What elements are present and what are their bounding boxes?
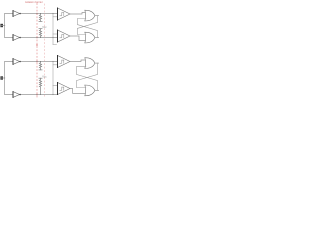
gate G3	[85, 58, 95, 69]
wire U5 out	[70, 13, 85, 15]
U4 left edge	[12, 92, 14, 98]
U4 output node dot	[19, 94, 21, 96]
schmitt trigger U5	[58, 8, 71, 20]
wire crossover vertical 2	[52, 62, 54, 95]
wire U6 out	[70, 36, 85, 41]
wire U7 out	[70, 60, 85, 62]
wire stub T5 lower input	[53, 16, 58, 18]
feedback wire G1 to G2 input	[77, 16, 97, 35]
junction dot crossover 1 bottom	[52, 37, 53, 38]
wire stub T7 lower input	[53, 64, 58, 66]
junction dot	[4, 25, 5, 26]
wire stub bottom 1	[53, 44, 57, 46]
wire J1 stub	[0, 25, 5, 27]
gate G2	[85, 32, 95, 43]
wire G2 out	[95, 37, 99, 39]
input connector J1	[0, 24, 3, 27]
isolation barrier dashed line 1	[36, 4, 38, 98]
junction dot R2	[40, 37, 41, 38]
wire U8 out	[70, 89, 85, 94]
U1 left edge	[12, 11, 14, 17]
U5 hysteresis mark	[60, 13, 64, 16]
feedback wire G3 to G4 input	[76, 63, 97, 87]
gate G1	[85, 10, 95, 21]
junction dot R4	[40, 94, 41, 95]
wire B1	[20, 37, 58, 39]
buffer U1	[13, 11, 20, 17]
isolation barrier dashed line 2	[44, 4, 46, 97]
wire G1 out	[95, 15, 99, 17]
schmitt trigger U6	[58, 30, 71, 42]
resistor R4	[39, 78, 41, 94]
svg-text:isolation barrier: isolation barrier	[25, 0, 43, 4]
supply bar R1	[39, 20, 42, 22]
junction dot crossover 2 top	[52, 61, 53, 62]
junction dot R1	[40, 13, 41, 14]
buffer U3	[13, 59, 20, 65]
junction dot crossover 2 bottom	[52, 94, 53, 95]
U7 hysteresis mark	[60, 60, 64, 63]
schmitt trigger U7	[58, 56, 71, 68]
barrier crossing dot node A2	[36, 61, 38, 63]
wire B2	[20, 94, 58, 96]
junction dot crossover 1 top	[52, 13, 53, 14]
wire A1	[20, 13, 58, 15]
wire A2	[20, 61, 58, 63]
input connector J2	[0, 76, 3, 79]
feedback wire G4 to G3 input	[76, 67, 97, 91]
barrier crossing dot node B1	[36, 37, 38, 39]
svg-text:Vcc: Vcc	[42, 25, 47, 29]
wire stub T6 upper input	[53, 33, 58, 35]
resistor R3	[39, 62, 41, 70]
barrier crossing dot node A1	[36, 13, 38, 15]
wire G3 out	[95, 62, 99, 64]
U3 left edge	[12, 59, 14, 65]
U7 left edge	[57, 56, 59, 68]
svg-text:Vcc: Vcc	[42, 74, 47, 78]
U3 output node dot	[19, 61, 21, 63]
U5 left edge	[57, 8, 59, 20]
gate G4	[85, 85, 95, 96]
buffer U2	[13, 35, 20, 41]
junction dot R3	[40, 61, 41, 62]
junction dot	[4, 77, 5, 78]
wire crossover vertical 1	[52, 14, 54, 45]
barrier crossing dot mid1	[36, 44, 38, 46]
U6 hysteresis mark	[60, 35, 64, 38]
wire input bus 1	[5, 14, 14, 38]
U6 left edge	[57, 30, 59, 42]
resistor R2	[39, 29, 41, 38]
buffer U4	[13, 92, 20, 98]
resistor R1	[39, 14, 41, 22]
supply bar R4	[39, 77, 42, 79]
wire J2 stub	[0, 77, 5, 79]
U2 left edge	[12, 35, 14, 41]
U1 output node dot	[19, 13, 21, 15]
wire stub T8 upper input	[53, 85, 58, 87]
supply bar R3	[39, 69, 42, 71]
U8 left edge	[57, 83, 59, 95]
U8 hysteresis mark	[60, 87, 64, 90]
wire G4 out	[95, 89, 99, 91]
U2 output node dot	[19, 37, 21, 39]
schmitt trigger U8	[58, 83, 71, 95]
supply bar R2	[39, 28, 42, 30]
wire input bus 2	[5, 62, 14, 95]
barrier crossing dot node B2	[36, 94, 38, 96]
feedback wire G2 to G1 input	[77, 19, 97, 38]
